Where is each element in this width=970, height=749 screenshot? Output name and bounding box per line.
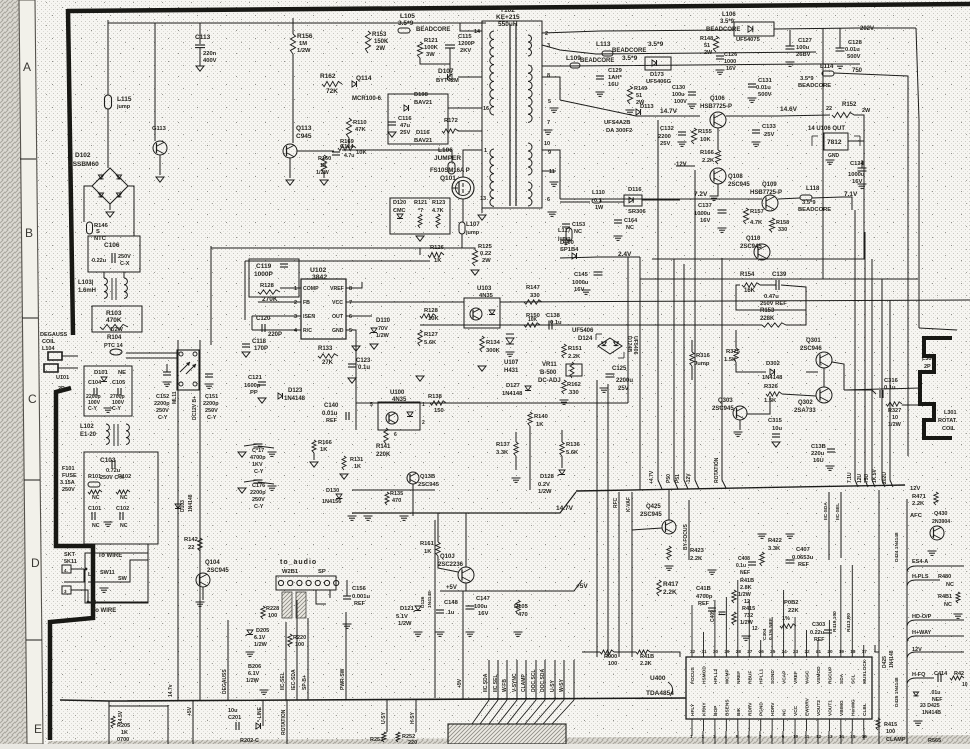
svg-text:A: A [23, 60, 31, 74]
svg-text:100u: 100u [672, 92, 685, 98]
svg-text:1K: 1K [536, 422, 544, 428]
svg-text:250V: 250V [205, 408, 218, 414]
svg-text:1/2W: 1/2W [538, 489, 552, 495]
svg-text:1K: 1K [434, 258, 442, 264]
svg-text:C123: C123 [356, 358, 371, 364]
bottom scanner hatched edge [48, 735, 970, 744]
svg-text:H-FQ: H-FQ [912, 672, 926, 678]
svg-text:220: 220 [408, 740, 417, 744]
svg-text:R140: R140 [534, 414, 548, 420]
resistor box R103 [92, 306, 142, 332]
svg-text:R166: R166 [318, 440, 333, 446]
svg-text:DEGAUSS: DEGAUSS [222, 669, 228, 694]
svg-text:150: 150 [434, 408, 444, 414]
svg-text:2200u: 2200u [616, 378, 633, 384]
svg-text:29: 29 [724, 649, 730, 654]
svg-text:R125: R125 [478, 244, 493, 250]
svg-text:1.5K: 1.5K [764, 398, 777, 404]
svg-text:23: 23 [793, 649, 799, 654]
svg-text:HSB7725-P: HSB7725-P [700, 104, 732, 110]
wires from audio connector [316, 590, 326, 604]
svg-text:47K: 47K [355, 127, 366, 133]
R327 resistor [886, 402, 902, 406]
svg-text:0700: 0700 [117, 737, 129, 743]
svg-text:PTC 14: PTC 14 [104, 343, 124, 349]
svg-text:D101: D101 [94, 370, 109, 376]
svg-text:70V: 70V [378, 326, 388, 332]
svg-text:SDA: SDA [839, 673, 845, 684]
bottom signal connector [448, 724, 566, 744]
svg-text:1K: 1K [424, 549, 432, 555]
svg-text:12V: 12V [910, 486, 920, 492]
svg-text:3.5*9: 3.5*9 [398, 20, 414, 27]
top horizontal rail from mains to right [108, 22, 486, 24]
svg-text:26: 26 [759, 649, 765, 654]
main bus y490 [576, 485, 905, 491]
svg-text:5K11: 5K11 [64, 559, 77, 565]
primary winding bottom [490, 149, 494, 206]
svg-text:1/2W: 1/2W [888, 422, 902, 428]
svg-text:R147: R147 [526, 285, 540, 291]
svg-text:+5V: +5V [576, 583, 588, 590]
svg-text:R172: R172 [444, 118, 458, 124]
svg-text:0.1u: 0.1u [884, 385, 896, 391]
svg-text:R158: R158 [776, 220, 789, 226]
svg-text:ML11: ML11 [172, 391, 178, 404]
svg-text:BAV21: BAV21 [414, 100, 433, 106]
svg-text:8: 8 [349, 286, 352, 292]
svg-text:C121: C121 [248, 375, 263, 381]
svg-text:R160: R160 [318, 156, 331, 162]
svg-text:550uH: 550uH [498, 21, 518, 28]
U400 bottom pin stubs and numbers [691, 719, 693, 731]
svg-text:R205: R205 [117, 723, 130, 729]
svg-text:to_audio: to_audio [280, 559, 317, 566]
svg-text:1K: 1K [320, 447, 328, 453]
svg-text:100: 100 [608, 661, 617, 667]
svg-text:C407: C407 [796, 547, 810, 553]
svg-text:1.5K: 1.5K [724, 357, 737, 363]
grounds small row [742, 635, 751, 637]
svg-text:C408: C408 [738, 556, 750, 562]
svg-text:BY-FOCUS: BY-FOCUS [683, 524, 689, 551]
svg-text:0.22: 0.22 [480, 251, 491, 257]
diode D173 [645, 57, 671, 70]
svg-text:VREF: VREF [330, 286, 344, 292]
svg-text:1000: 1000 [724, 59, 736, 65]
IIC-SDA IIC-SEL drops to SDA SCL [828, 492, 830, 560]
svg-text:2.8K: 2.8K [740, 585, 752, 591]
svg-text:16: 16 [483, 106, 489, 112]
svg-text:.01u: .01u [930, 690, 940, 696]
svg-text:BAV21: BAV21 [414, 138, 433, 144]
svg-text:0.1u: 0.1u [736, 563, 746, 569]
svg-text:REF: REF [326, 418, 338, 424]
svg-text:4.7K: 4.7K [432, 208, 444, 214]
transistor Q108 [710, 168, 726, 184]
svg-text:16V: 16V [726, 66, 736, 72]
svg-text:3842: 3842 [312, 274, 327, 281]
svg-text:C118: C118 [252, 339, 267, 345]
svg-text:DEGAUSS: DEGAUSS [40, 332, 68, 338]
svg-text:20: 20 [827, 649, 833, 654]
svg-text:R415: R415 [884, 722, 897, 728]
svg-text:W-FB: W-FB [502, 679, 508, 692]
svg-text:R316: R316 [696, 353, 711, 359]
svg-text:5.6K: 5.6K [424, 340, 437, 346]
svg-text:B206: B206 [248, 664, 261, 670]
capacitor C131 [748, 83, 756, 85]
svg-text:51: 51 [704, 43, 710, 49]
svg-text:C113: C113 [195, 34, 211, 41]
svg-text:L104: L104 [42, 346, 55, 352]
svg-text:14.7V: 14.7V [660, 108, 678, 115]
R423 2.2K [667, 546, 671, 560]
svg-text:L105: L105 [400, 13, 415, 20]
svg-text:C129: C129 [608, 68, 623, 74]
svg-text:+4.7V: +4.7V [649, 470, 655, 484]
svg-text:2KV: 2KV [460, 48, 471, 54]
svg-text:R153: R153 [372, 32, 387, 38]
svg-text:R41B: R41B [640, 654, 654, 660]
svg-text:HSMOD: HSMOD [701, 666, 707, 684]
svg-text:7.1U: 7.1U [847, 472, 853, 483]
svg-text:BYT42M: BYT42M [436, 78, 459, 84]
svg-text:2.2K: 2.2K [912, 501, 925, 507]
svg-text:Q106: Q106 [710, 96, 725, 102]
svg-text:3.5*9: 3.5*9 [622, 55, 638, 62]
svg-text:R162: R162 [567, 382, 581, 388]
svg-text:C153: C153 [572, 222, 585, 228]
R166b 1K resistor [312, 440, 316, 453]
svg-text:4700p: 4700p [250, 455, 266, 461]
wires Q101 drain source [462, 174, 464, 177]
svg-text:Q430: Q430 [934, 511, 947, 517]
svg-text:BIK: BIK [736, 707, 742, 716]
svg-text:4700p: 4700p [696, 594, 713, 600]
wires IIC drop [285, 622, 287, 700]
svg-text:R127: R127 [424, 332, 438, 338]
svg-text:2W: 2W [482, 258, 491, 264]
svg-text:ROTAT.: ROTAT. [938, 418, 958, 424]
svg-text:202U: 202U [882, 472, 888, 484]
svg-text:REF: REF [798, 562, 810, 568]
svg-text:1N4148: 1N4148 [188, 494, 194, 512]
svg-text:1N4148: 1N4148 [889, 650, 895, 668]
svg-text:RGCUP: RGCUP [827, 666, 833, 684]
svg-text:L103|: L103| [78, 280, 94, 286]
svg-text:16V: 16V [700, 218, 710, 224]
svg-text:14.6V: 14.6V [780, 106, 798, 113]
signal fan lines into connector [488, 660, 490, 700]
horizontal rail y259 right segment [652, 141, 864, 259]
svg-text:31: 31 [701, 649, 707, 654]
wire rail y325 to rotation [628, 324, 762, 326]
svg-text:R104: R104 [107, 335, 122, 341]
hatched plugs under connector [282, 592, 292, 618]
svg-text:Jump: Jump [694, 361, 710, 367]
svg-text:IIC-SEL: IIC-SEL [280, 672, 286, 690]
wire bridge left to NTC [84, 186, 92, 222]
wires below U400 pins to bottom connector [692, 731, 864, 744]
ground under bridge [109, 204, 111, 210]
svg-text:IEC-SDA: IEC-SDA [291, 669, 297, 690]
svg-text:Q110: Q110 [746, 236, 761, 242]
svg-text:P50: P50 [666, 474, 672, 483]
svg-text:L118: L118 [806, 186, 820, 192]
svg-text:U400: U400 [650, 675, 666, 682]
svg-text:IIC.SDA: IIC.SDA [483, 673, 489, 692]
svg-text:HenMG: HenMG [850, 699, 856, 716]
bottom left box lines [167, 705, 169, 744]
svg-text:COIL: COIL [42, 339, 56, 345]
svg-text:NC: NC [574, 229, 582, 235]
svg-text:51: 51 [636, 93, 642, 99]
svg-text:R/C: R/C [303, 328, 312, 334]
svg-text:13: 13 [480, 196, 486, 202]
svg-text:220n: 220n [203, 51, 217, 57]
svg-text:R228: R228 [266, 606, 279, 612]
svg-text:7: 7 [349, 300, 352, 306]
svg-text:750: 750 [852, 68, 863, 74]
svg-text:FOCUS: FOCUS [690, 666, 696, 684]
diode D113 [636, 109, 641, 115]
svg-text:R422: R422 [768, 538, 782, 544]
svg-text:PGND: PGND [759, 702, 765, 716]
svg-text:NC: NC [92, 523, 100, 529]
svg-text:2W: 2W [376, 46, 385, 52]
svg-text:SR306: SR306 [628, 209, 647, 215]
svg-text:C114: C114 [340, 144, 354, 150]
svg-text:D424 1N4148: D424 1N4148 [894, 532, 900, 562]
R162b 330 [562, 380, 566, 394]
svg-text:H-PLS: H-PLS [912, 574, 929, 580]
svg-text:jump: jump [465, 230, 480, 236]
svg-text:C127: C127 [798, 38, 812, 44]
C119 compensation box [249, 259, 299, 297]
svg-text:UF5406: UF5406 [572, 328, 594, 334]
svg-text:R41B: R41B [740, 578, 754, 584]
svg-text:14.7V: 14.7V [556, 505, 574, 512]
svg-text:REF: REF [814, 637, 824, 643]
wire degauss vertical [227, 620, 229, 700]
svg-text:C-Y: C-Y [207, 415, 217, 421]
bus y248 from riser to R126 [211, 247, 420, 249]
svg-text:SW11: SW11 [100, 570, 115, 576]
svg-text:L114: L114 [820, 64, 834, 70]
svg-text:D: D [31, 556, 40, 570]
svg-text:12: 12 [752, 626, 758, 632]
svg-text:D102: D102 [75, 152, 91, 159]
svg-text:DSSBM60: DSSBM60 [68, 161, 99, 168]
svg-text:C945: C945 [296, 133, 312, 140]
svg-text:2P: 2P [58, 386, 65, 392]
svg-text:R136: R136 [566, 442, 581, 448]
svg-text:C151: C151 [205, 394, 218, 400]
svg-text:1N414B: 1N414B [922, 710, 941, 716]
svg-text:L102: L102 [80, 424, 94, 430]
ground inside D101 box [104, 407, 113, 409]
svg-text:C116: C116 [398, 116, 412, 122]
svg-text:23 D425: 23 D425 [920, 703, 940, 709]
svg-text:100: 100 [268, 613, 277, 619]
svg-text:R900: R900 [604, 654, 617, 660]
svg-text:R415: R415 [742, 606, 755, 612]
left vertical wires from U102 zone [244, 261, 246, 320]
svg-text:D116: D116 [628, 187, 642, 193]
svg-text:C: C [28, 392, 37, 406]
svg-text:250V: 250V [156, 408, 169, 414]
NTC R146 [87, 222, 93, 234]
svg-text:R155: R155 [698, 129, 713, 135]
inductor L115 [105, 95, 112, 109]
svg-text:6.1V: 6.1V [248, 671, 260, 677]
svg-text:R137: R137 [496, 442, 510, 448]
svg-text:1K: 1K [320, 163, 327, 169]
svg-text:C104: C104 [88, 380, 102, 386]
svg-text:D110: D110 [376, 318, 391, 324]
svg-text:D130: D130 [326, 488, 339, 494]
svg-text:ROTATION: ROTATION [714, 457, 720, 483]
svg-text:75U: 75U [864, 473, 870, 483]
transformer box outline [482, 21, 542, 208]
svg-text:*7: *7 [418, 208, 423, 214]
svg-text:R375: R375 [726, 349, 741, 355]
transformer pins right wires [542, 77, 560, 100]
L109 rail extension right [816, 63, 860, 65]
svg-text:*-LINE: *-LINE [257, 706, 263, 722]
svg-text:2.2K: 2.2K [640, 661, 652, 667]
R151 2.2K [562, 344, 566, 358]
svg-text:R135: R135 [390, 491, 403, 497]
svg-text:C316: C316 [884, 378, 899, 384]
svg-text:CLBL: CLBL [862, 703, 868, 716]
left scanner hatched margin [0, 0, 27, 744]
svg-text:1N4148: 1N4148 [762, 375, 783, 381]
svg-text:RDRV: RDRV [747, 702, 753, 716]
svg-text:REF: REF [698, 601, 710, 607]
svg-text:R110: R110 [353, 120, 367, 126]
svg-text:2.2K: 2.2K [663, 589, 677, 596]
R375 1.5K [734, 348, 738, 362]
svg-text:3.5*9: 3.5*9 [720, 19, 735, 25]
svg-text:D205: D205 [256, 628, 269, 634]
vertical buses center x658-695 [658, 120, 662, 489]
svg-text:C303: C303 [812, 622, 825, 628]
wires snubber [420, 22, 450, 24]
svg-text:W2B1: W2B1 [282, 569, 299, 575]
corner 202V to L300 [919, 328, 957, 330]
snubber box [388, 94, 448, 144]
svg-text:330: 330 [569, 390, 579, 396]
svg-text:2.2K: 2.2K [568, 354, 581, 360]
svg-text:250V: 250V [252, 497, 265, 503]
svg-text:0.001u: 0.001u [352, 594, 371, 600]
svg-text:100u: 100u [796, 45, 810, 51]
svg-text:BEADCORE: BEADCORE [798, 83, 831, 89]
svg-text:R148: R148 [700, 36, 713, 42]
R140 1K [528, 412, 532, 426]
7.2V rail [560, 198, 762, 200]
svg-text:Q101: Q101 [440, 175, 456, 182]
svg-text:EWDRV: EWDRV [805, 697, 811, 716]
wire bus y403 [356, 402, 628, 404]
svg-text:U102: U102 [310, 267, 326, 274]
svg-text:14.7v: 14.7v [168, 684, 174, 697]
svg-text:1W: 1W [595, 205, 604, 211]
svg-text:22: 22 [805, 649, 811, 654]
svg-text:5: 5 [349, 328, 352, 334]
sense wire to U102 [463, 248, 475, 250]
svg-text:2SC945: 2SC945 [640, 512, 662, 518]
ruler tick marks [20, 158, 36, 160]
svg-text:2SC945: 2SC945 [712, 406, 734, 412]
svg-text:5: 5 [548, 99, 551, 105]
svg-text:SCL: SCL [850, 674, 856, 684]
svg-text:D108: D108 [414, 92, 429, 98]
wires Q113 collector [292, 54, 294, 143]
svg-text:2SA733: 2SA733 [794, 408, 816, 414]
svg-text:jump: jump [116, 104, 131, 110]
svg-text:5.1V: 5.1V [396, 614, 408, 620]
audio connector box [276, 576, 336, 590]
svg-text:C138: C138 [546, 313, 561, 319]
svg-text:AFC: AFC [910, 513, 923, 519]
svg-text:IIC.SEL: IIC.SEL [493, 674, 499, 692]
svg-text:0.2V: 0.2V [538, 482, 550, 488]
svg-text:FS10SM16A P: FS10SM16A P [430, 168, 470, 174]
svg-text:2200p: 2200p [154, 401, 170, 407]
svg-text:Q301: Q301 [806, 338, 821, 344]
wire mains vertical from top border [107, 20, 109, 95]
svg-text:D173: D173 [650, 72, 665, 78]
svg-text:25V: 25V [400, 130, 410, 136]
svg-text:HDRV: HDRV [770, 702, 776, 716]
svg-text:3.5*9: 3.5*9 [648, 41, 664, 48]
svg-text:22K: 22K [788, 608, 799, 614]
svg-text:150K: 150K [374, 39, 389, 45]
svg-text:NEF: NEF [740, 570, 750, 576]
svg-text:SKT: SKT [64, 552, 76, 558]
R205 resistor [111, 716, 115, 728]
svg-text:U-SY: U-SY [550, 679, 556, 692]
svg-text:R128: R128 [424, 308, 439, 314]
svg-text:1.6mH: 1.6mH [78, 288, 96, 294]
svg-text:Q425: Q425 [646, 504, 661, 510]
wires PTC to relay [126, 352, 177, 354]
svg-text:UFS4A2B: UFS4A2B [604, 120, 630, 126]
svg-text:25: 25 [770, 649, 776, 654]
svg-text:250V: 250V [62, 487, 75, 493]
wire 14.7V rail [560, 100, 700, 116]
svg-text:VBIMG: VBIMG [839, 700, 845, 716]
svg-text:U-SY: U-SY [381, 711, 387, 724]
svg-text:10K: 10K [356, 150, 367, 156]
secondary pin2 rail to D111 [542, 30, 734, 33]
wires from socket to filter box [88, 544, 148, 602]
svg-text:C41B: C41B [696, 586, 711, 592]
svg-text:10: 10 [962, 682, 968, 688]
svg-text:IIC-SEL: IIC-SEL [835, 503, 841, 520]
svg-text:R154: R154 [740, 272, 755, 278]
svg-text:1200P: 1200P [458, 41, 475, 47]
svg-text:R142: R142 [184, 537, 198, 543]
svg-text:C304: C304 [762, 628, 768, 640]
U102 IC box [301, 279, 346, 339]
loop wires R154 C139 [760, 284, 776, 286]
svg-text:1N4148: 1N4148 [427, 591, 433, 608]
svg-text:12U: 12U [857, 473, 863, 483]
